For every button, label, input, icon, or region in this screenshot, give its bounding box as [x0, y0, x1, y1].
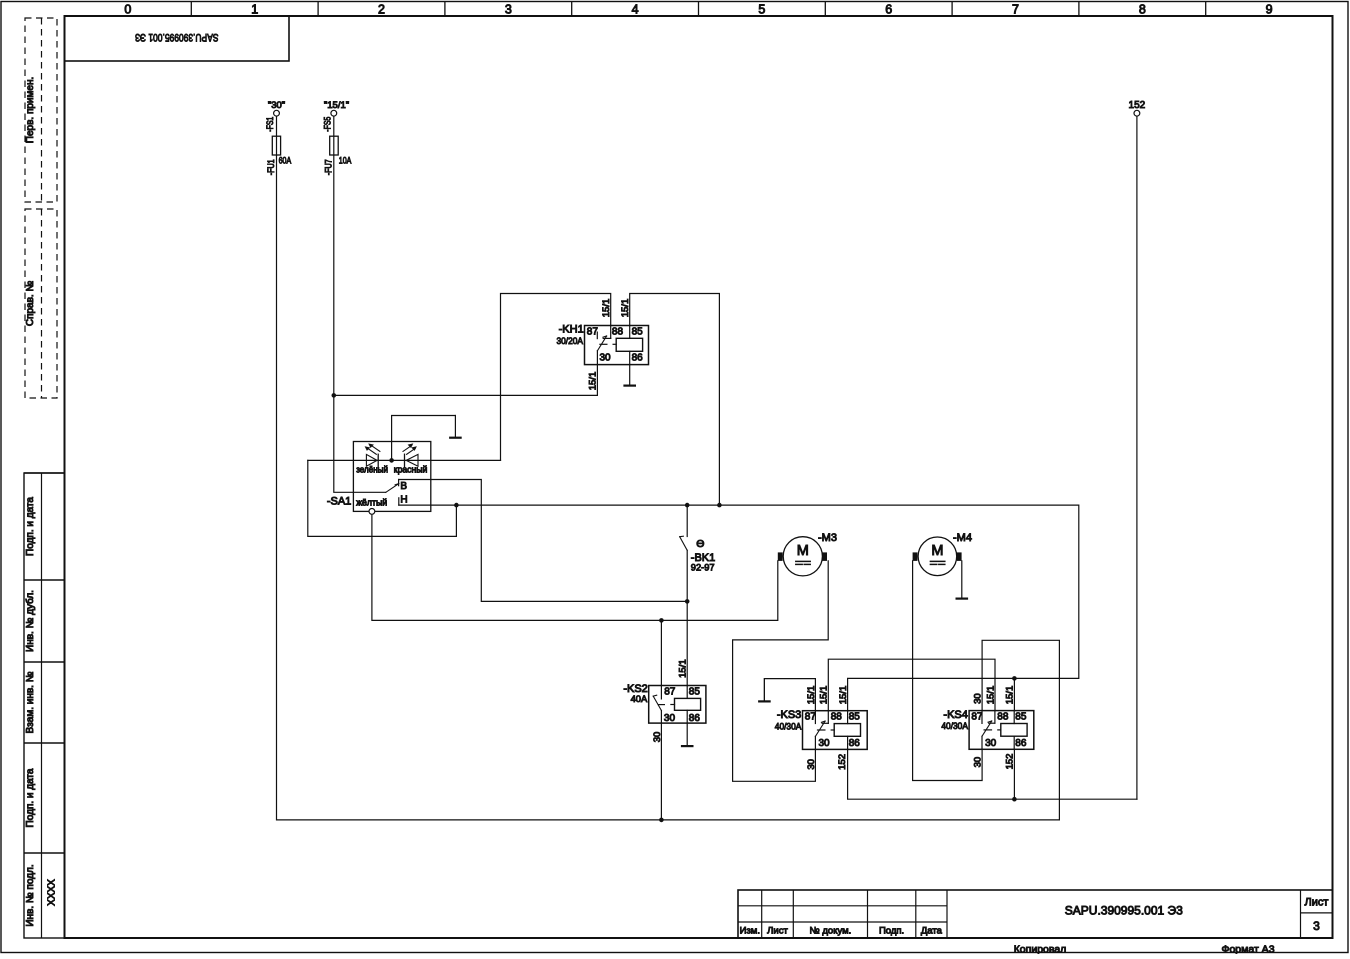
svg-text:15/1: 15/1 — [1005, 686, 1016, 705]
wire KS3 87 to ground — [764, 679, 815, 711]
svg-text:-M3: -M3 — [818, 532, 837, 544]
svg-text:Подп.: Подп. — [879, 926, 904, 937]
motor M4 — [913, 532, 972, 576]
wire net 30: from terminal through FU1 down to bottom bus — [277, 117, 1060, 820]
svg-text:-KS4: -KS4 — [943, 709, 967, 721]
svg-text:Формат А3: Формат А3 — [1221, 944, 1274, 955]
thermal switch BK1 — [680, 505, 716, 572]
svg-text:15/1: 15/1 — [838, 686, 849, 705]
wire M3 right terminal to KS3 pin 30 — [733, 561, 829, 781]
wire net 152 — [1136, 117, 1138, 799]
svg-text:H: H — [400, 495, 407, 506]
wire LED common to ground — [392, 416, 456, 461]
SA1 movable contact blade — [386, 484, 399, 493]
svg-text:7: 7 — [1012, 3, 1019, 17]
svg-text:Θ: Θ — [696, 538, 704, 550]
svg-text:3: 3 — [505, 3, 512, 17]
svg-text:Подп. и дата: Подп. и дата — [25, 768, 36, 827]
node B-net/BK1 junction — [685, 599, 690, 604]
svg-text:красный: красный — [394, 465, 428, 475]
svg-text:Справ. №: Справ. № — [25, 281, 36, 327]
svg-text:-FU7: -FU7 — [324, 159, 335, 175]
node LED common junction — [389, 458, 394, 463]
svg-text:86: 86 — [1015, 738, 1027, 749]
ground at KS3 87 — [763, 679, 765, 702]
svg-text:SAPU.390995.001 ЭЗ: SAPU.390995.001 ЭЗ — [135, 31, 219, 43]
motor M3 — [778, 532, 837, 576]
ground at M4 right terminal — [961, 561, 963, 599]
wire LED bypass loop to H bus — [308, 460, 457, 536]
node H/BK1 junction — [685, 503, 690, 508]
svg-text:"15/1": "15/1" — [324, 100, 349, 111]
svg-text:40/30A: 40/30A — [775, 721, 802, 731]
svg-text:88: 88 — [997, 711, 1009, 722]
LED red (красный) — [394, 443, 428, 474]
wire KH1 coil to H line (top loop right) — [630, 294, 720, 506]
wire KS4 30 to M4 left terminal — [913, 561, 983, 781]
svg-text:Лист: Лист — [1305, 897, 1329, 909]
svg-text:6: 6 — [885, 3, 892, 17]
svg-text:8: 8 — [1139, 3, 1146, 17]
svg-text:152: 152 — [837, 754, 848, 770]
wire KS2 30 to bottom bus — [660, 723, 662, 820]
svg-text:30: 30 — [972, 757, 983, 768]
svg-text:85: 85 — [632, 326, 644, 337]
relay KH1 — [557, 324, 649, 365]
wire KS3 88 to KS4 88 — [828, 659, 995, 711]
relay KS4 — [941, 709, 1033, 749]
svg-text:SAPU.390995.001 Э3: SAPU.390995.001 Э3 — [1065, 904, 1183, 918]
svg-text:Перв. примен.: Перв. примен. — [25, 77, 36, 143]
wire net B: SA1 B contact to BK1 bottom / KS2 coil — [399, 480, 688, 602]
ground at KH1 coil (86) — [629, 365, 631, 386]
svg-text:зелёный: зелёный — [356, 465, 388, 475]
svg-text:30: 30 — [806, 759, 817, 770]
relay KS3 — [775, 709, 867, 749]
svg-text:15/1: 15/1 — [985, 686, 996, 705]
svg-text:40/30A: 40/30A — [941, 721, 968, 731]
wire 15/1 branch to KH1 pin 30 — [334, 365, 598, 396]
svg-text:3: 3 — [1313, 919, 1320, 933]
LED green (зелёный) — [356, 443, 388, 474]
node 30-bus/KS2 junction — [659, 818, 664, 823]
svg-text:86: 86 — [689, 713, 701, 724]
svg-text:-FS5: -FS5 — [323, 117, 334, 132]
svg-text:Копировал: Копировал — [1014, 944, 1067, 955]
fuse FU7 — [324, 136, 352, 175]
switch SA1 — [327, 442, 431, 512]
svg-text:87: 87 — [805, 711, 817, 722]
svg-text:2: 2 — [378, 3, 385, 17]
svg-text:Инв. № дубл.: Инв. № дубл. — [24, 590, 36, 652]
svg-text:Дата: Дата — [921, 926, 943, 937]
svg-text:"30": "30" — [268, 100, 285, 111]
svg-text:M: M — [931, 543, 943, 559]
svg-text:15/1: 15/1 — [806, 686, 817, 705]
svg-text:1: 1 — [251, 3, 258, 17]
SA1 contact H stub — [398, 498, 400, 505]
node yellow/KS2-87 junction — [659, 618, 664, 623]
svg-text:92-97: 92-97 — [691, 563, 715, 573]
node 152-bus/KS4-86 junction — [1012, 797, 1017, 802]
fuse FU1 — [266, 136, 291, 175]
svg-text:152: 152 — [1129, 100, 1146, 111]
svg-text:Взам. инв. №: Взам. инв. № — [25, 671, 36, 733]
terminal "15/1" — [323, 100, 350, 132]
svg-text:15/1: 15/1 — [588, 372, 599, 391]
svg-text:-M4: -M4 — [953, 532, 972, 544]
svg-text:15/1: 15/1 — [620, 299, 631, 318]
svg-text:40A: 40A — [631, 694, 648, 704]
relay KS2 — [623, 683, 706, 724]
svg-text:85: 85 — [1015, 711, 1027, 722]
svg-text:10A: 10A — [339, 156, 352, 167]
svg-text:15/1: 15/1 — [819, 686, 830, 705]
wire net yellow: SA1 lamp to M3 left terminal — [372, 515, 778, 620]
svg-text:-KH1: -KH1 — [559, 324, 584, 336]
svg-text:152: 152 — [1005, 754, 1016, 770]
node H/KH1-coil junction — [717, 503, 722, 508]
svg-text:Лист: Лист — [767, 926, 788, 937]
svg-text:4: 4 — [632, 3, 639, 17]
svg-text:15/1: 15/1 — [601, 299, 612, 318]
node H/LED-loop junction — [454, 503, 459, 508]
terminal "30" — [265, 100, 285, 132]
svg-text:86: 86 — [632, 353, 644, 364]
svg-text:5: 5 — [758, 3, 765, 17]
svg-text:9: 9 — [1266, 3, 1273, 17]
svg-text:-SA1: -SA1 — [327, 496, 351, 508]
terminal 152 — [1129, 100, 1146, 116]
svg-text:-FU1: -FU1 — [266, 159, 277, 175]
svg-text:-KS3: -KS3 — [777, 709, 801, 721]
ground at KS2 coil (86) — [686, 723, 688, 746]
wire net H: SA1 H contact bus to KS3/KS4 coils — [399, 505, 1079, 711]
svg-text:Подп. и дата: Подп. и дата — [25, 497, 36, 556]
svg-text:30: 30 — [652, 732, 663, 743]
svg-text:XXXX: XXXX — [47, 879, 58, 906]
svg-text:60A: 60A — [279, 156, 292, 167]
svg-text:86: 86 — [849, 738, 861, 749]
svg-text:жёлтый: жёлтый — [356, 498, 387, 508]
node 15/1 junction on FU7 wire — [332, 393, 337, 398]
svg-text:Инв. № подл.: Инв. № подл. — [25, 864, 36, 926]
svg-text:30: 30 — [985, 738, 997, 749]
svg-text:Изм.: Изм. — [740, 926, 760, 937]
SA1 contact B stub — [398, 480, 400, 486]
svg-text:87: 87 — [587, 326, 599, 337]
wire net 15/1: from terminal through FU7 down to SA1 common — [334, 117, 386, 492]
wire KS4 85 from H bus — [1013, 678, 1015, 710]
svg-text:30: 30 — [664, 713, 676, 724]
SA1 yellow lamp terminal (жёлтый) — [356, 498, 387, 515]
svg-text:88: 88 — [612, 326, 624, 337]
svg-text:B: B — [400, 481, 407, 492]
svg-text:87: 87 — [664, 686, 676, 697]
node H-bus/KS4-85 junction — [1012, 676, 1017, 681]
svg-text:-FS1: -FS1 — [265, 117, 276, 132]
wire KH1 87/88 to LED common (top loop left) — [501, 294, 611, 461]
svg-text:30: 30 — [819, 738, 831, 749]
svg-text:30: 30 — [600, 353, 612, 364]
wire BK1 to KS2 coil (85) — [686, 550, 688, 685]
wire LED common line — [308, 459, 501, 461]
svg-text:88: 88 — [831, 711, 843, 722]
svg-text:M: M — [797, 543, 809, 559]
svg-text:85: 85 — [689, 686, 701, 697]
wire KS4 87 to 30 bus — [982, 640, 1059, 820]
svg-text:30: 30 — [972, 693, 983, 704]
svg-text:87: 87 — [971, 711, 983, 722]
svg-text:30/20A: 30/20A — [557, 336, 584, 346]
wire KS3 86 to terminal 152 bus — [848, 749, 1137, 799]
svg-text:15/1: 15/1 — [678, 659, 689, 678]
svg-text:№ докум.: № докум. — [810, 926, 852, 937]
ground at LED common — [454, 416, 456, 438]
svg-text:0: 0 — [124, 3, 131, 17]
svg-text:85: 85 — [849, 711, 861, 722]
wire KS4 86 to 152 bus — [1013, 749, 1015, 799]
wire KS2 87 feed — [660, 620, 662, 685]
